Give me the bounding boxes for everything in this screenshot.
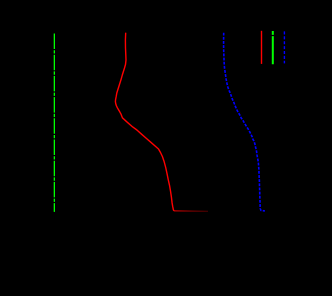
legend: green dash-dot sample line [272,31,274,64]
legend: red solid sample line [261,31,263,64]
green dash-dot vertical profile line [53,34,55,212]
legend: blue dashed sample line [283,31,285,63]
blue dashed profile curve [224,33,265,211]
red solid profile curve [115,33,173,211]
red curve fading horizontal tail [174,210,208,212]
